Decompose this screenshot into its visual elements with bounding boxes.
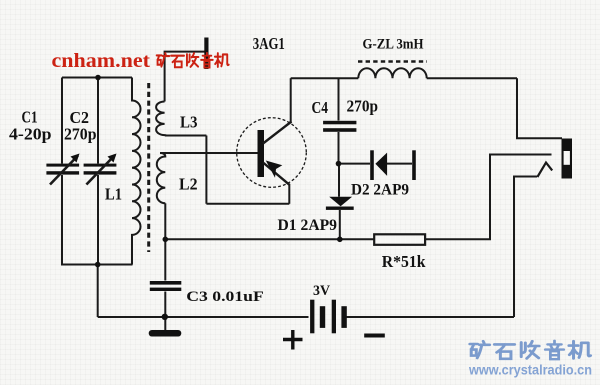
wire detector rail bbox=[165, 238, 374, 240]
svg-text:270p: 270p bbox=[64, 125, 97, 144]
svg-text:D1 2AP9: D1 2AP9 bbox=[278, 217, 338, 234]
wire D1 upper lead bbox=[338, 164, 340, 197]
diode D1 cathode bar bbox=[326, 207, 354, 210]
wire C2 bottom to battery rail bbox=[97, 265, 99, 318]
wire C3 upper lead bbox=[164, 239, 166, 280]
svg-text:D2 2AP9: D2 2AP9 bbox=[351, 182, 409, 199]
transistor Q1 circle bbox=[237, 118, 307, 188]
node C3 bottom bbox=[162, 314, 168, 320]
inductor GZL bbox=[358, 68, 426, 78]
transistor Q1 collector stroke bbox=[263, 122, 292, 144]
capacitor C2 arrow bbox=[86, 155, 115, 185]
wire L3-emitter link vertical bbox=[205, 136, 207, 204]
wire jack tip feed bbox=[517, 78, 562, 138]
svg-text:www.crystalradio.cn: www.crystalradio.cn bbox=[468, 363, 592, 378]
capacitor C4 plates bbox=[323, 121, 356, 125]
wire battery rail left bbox=[98, 316, 309, 318]
wire top tank rail bbox=[62, 77, 132, 79]
svg-text:4-20p: 4-20p bbox=[9, 125, 52, 144]
svg-text:C4: C4 bbox=[312, 98, 329, 117]
node D1-R bbox=[337, 237, 343, 243]
wire collector rail left of coil bbox=[291, 77, 359, 79]
transistor Q1 emitter stroke bbox=[263, 163, 290, 185]
svg-text:C3 0.01uF: C3 0.01uF bbox=[186, 289, 263, 305]
svg-text:R*51k: R*51k bbox=[382, 252, 426, 271]
wire C3 lower lead bbox=[164, 292, 166, 318]
svg-text:270p: 270p bbox=[347, 97, 379, 116]
wire L3 bottom lead bbox=[165, 135, 206, 137]
earphone jack window bbox=[564, 151, 570, 165]
inductor L1 bbox=[132, 78, 141, 265]
earphone jack body bbox=[562, 139, 573, 179]
inductor L3 bbox=[156, 102, 169, 136]
svg-text:G-ZL 3mH: G-ZL 3mH bbox=[363, 37, 424, 53]
capacitor C3 plates bbox=[150, 281, 182, 285]
svg-text:cnham.net: cnham.net bbox=[52, 50, 151, 72]
diode D2 triangle bbox=[375, 153, 387, 176]
diode D2 end bar bbox=[412, 150, 416, 180]
earphone jack spring contact bbox=[537, 163, 552, 177]
transformer core dashed bbox=[147, 83, 150, 252]
wire antenna lead bbox=[165, 52, 206, 102]
wire D1 lower lead bbox=[339, 210, 341, 239]
wire battery rail right bbox=[347, 316, 515, 318]
wire collector riser bbox=[290, 78, 292, 122]
transistor Q1 base bar bbox=[258, 130, 265, 177]
transistor Q1 emitter arrowhead bbox=[266, 161, 283, 178]
wire jack sleeve riser bbox=[514, 177, 537, 318]
label red kuang-shi-shou-yin-ji bbox=[157, 53, 229, 68]
svg-text:3AG1: 3AG1 bbox=[253, 34, 285, 53]
diode D2 cathode bar bbox=[370, 150, 374, 180]
wire bottom tank rail bbox=[61, 264, 133, 266]
wire emitter riser bbox=[288, 184, 290, 204]
wire C4 lower lead bbox=[338, 132, 340, 164]
svg-text:L3: L3 bbox=[180, 113, 198, 132]
ground bbox=[149, 330, 182, 337]
antenna bar bbox=[204, 38, 208, 70]
wire D2 cathode stub bbox=[387, 163, 412, 165]
inductor L2 bbox=[157, 153, 165, 203]
battery B1 plates bbox=[310, 300, 314, 334]
diode D1 triangle bbox=[329, 197, 352, 207]
svg-text:L1: L1 bbox=[105, 185, 122, 204]
wire ground stub bbox=[164, 317, 166, 330]
wire C1 branch lower bbox=[61, 175, 63, 265]
resistor R body bbox=[374, 234, 425, 245]
wire L2 bottom lead bbox=[164, 203, 166, 239]
capacitor C2 plates bbox=[84, 164, 117, 167]
wire D2 anode lead bbox=[339, 163, 371, 165]
GZL core dashed bbox=[358, 60, 427, 63]
battery minus sign bbox=[364, 334, 385, 338]
wire collector rail right of coil bbox=[427, 77, 517, 79]
svg-text:3V: 3V bbox=[313, 283, 330, 299]
node C2 bottom bbox=[95, 262, 101, 268]
wire C2 branch lower bbox=[97, 175, 99, 265]
node L2 bottom bbox=[163, 237, 169, 243]
node C4-D2-D1 bbox=[336, 161, 342, 167]
capacitor C1 arrow bbox=[50, 156, 78, 185]
wire base lead bbox=[160, 152, 258, 154]
svg-text:L2: L2 bbox=[179, 175, 198, 194]
node C2 top bbox=[95, 75, 101, 81]
wire emitter return horizontal bbox=[206, 203, 289, 205]
wire C2 branch upper bbox=[97, 78, 99, 164]
watermark blue kuang-shi-shou-yin-ji bbox=[470, 341, 591, 359]
battery plus sign bbox=[283, 330, 303, 350]
capacitor C1 plates bbox=[46, 164, 79, 167]
wire resistor right to jack riser bbox=[425, 155, 551, 240]
wire C1 branch upper bbox=[61, 78, 63, 164]
wire C4 upper lead bbox=[338, 79, 340, 121]
